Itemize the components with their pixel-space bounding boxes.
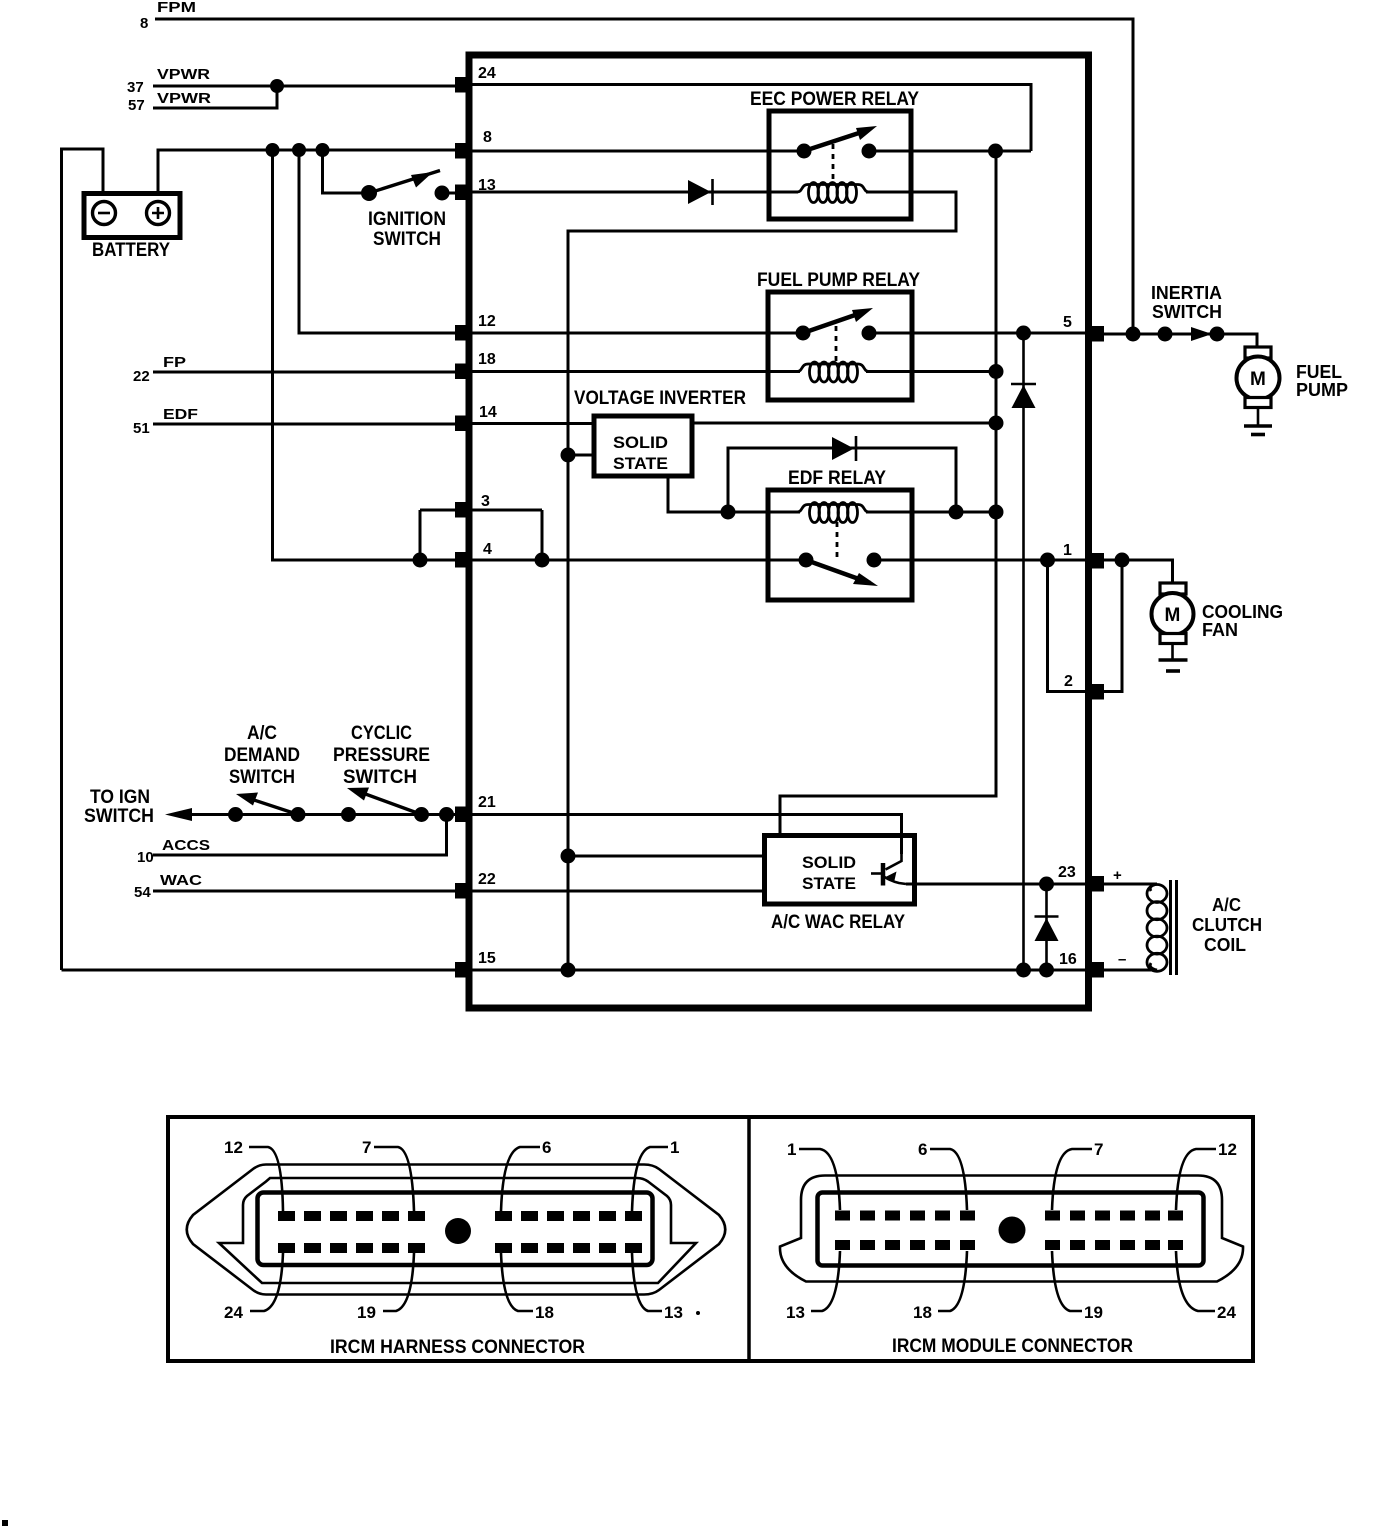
- wire VPWR pin 37: [127, 66, 458, 96]
- connector IRCM harness inner shell: [258, 1193, 653, 1266]
- svg-text:A/C: A/C: [247, 723, 277, 744]
- svg-text:13: 13: [664, 1303, 683, 1322]
- wire ACCS pin 10: [137, 815, 447, 867]
- svg-text:IRCM MODULE CONNECTOR: IRCM MODULE CONNECTOR: [892, 1336, 1133, 1357]
- wire EEC feed vertical to WAC: [780, 151, 996, 838]
- pin label 24 harness: [224, 1253, 283, 1322]
- svg-text:VPWR: VPWR: [157, 90, 211, 107]
- node EEC right feed junction: [988, 144, 1003, 159]
- svg-text:SWITCH: SWITCH: [1152, 302, 1222, 322]
- pin label 12 module: [1176, 1140, 1237, 1210]
- motor M2 cooling fan: [1152, 583, 1284, 644]
- svg-text:13: 13: [786, 1303, 805, 1322]
- scan artifact bottom-left: [2, 1520, 8, 1526]
- svg-text:SWITCH: SWITCH: [229, 767, 295, 788]
- wire B+ down to ignition switch: [323, 150, 370, 193]
- node strap left: [413, 553, 428, 568]
- svg-text:7: 7: [1094, 1140, 1103, 1159]
- wire battery positive feed line: [158, 150, 458, 196]
- pin 4: [455, 541, 492, 568]
- pin 18: [455, 351, 496, 379]
- svg-text:IGNITION: IGNITION: [368, 209, 446, 230]
- svg-text:PUMP: PUMP: [1296, 380, 1348, 400]
- motor M1 fuel pump: [1237, 347, 1349, 408]
- scan speck after 13 label: [696, 1311, 700, 1315]
- wire ground bus bottom to pin 15: [62, 969, 459, 972]
- wire pin 14 to voltage inverter: [471, 422, 596, 425]
- pin label 13 module: [786, 1251, 840, 1322]
- node ground stub to inverter: [561, 448, 576, 463]
- pin 12: [455, 313, 496, 341]
- wire TO IGN SWITCH line with arrow: [84, 787, 458, 827]
- svg-text:16: 16: [1059, 951, 1077, 968]
- wire pin 12 to FP relay contact: [471, 332, 803, 335]
- svg-text:SOLID: SOLID: [613, 433, 668, 452]
- connector harness pins top-left row: [278, 1211, 425, 1221]
- svg-text:18: 18: [913, 1303, 932, 1322]
- EEC power relay U1: [750, 89, 919, 219]
- pin 1: [1063, 542, 1104, 569]
- diode CR2 pin5 to ground line: [1011, 333, 1036, 970]
- svg-text:TO IGN: TO IGN: [90, 787, 150, 808]
- wire pin 4 line to EDF contact and pin 1: [458, 559, 1090, 562]
- pin 14: [455, 404, 497, 431]
- switch inertia switch: [1151, 283, 1225, 342]
- node VPWR junction: [270, 79, 284, 93]
- svg-text:VOLTAGE INVERTER: VOLTAGE INVERTER: [574, 388, 746, 409]
- pin label 19 harness: [357, 1253, 414, 1322]
- svg-text:SOLID: SOLID: [802, 853, 856, 872]
- svg-text:7: 7: [362, 1138, 371, 1157]
- svg-text:CYCLIC: CYCLIC: [351, 723, 412, 744]
- svg-text:22: 22: [133, 368, 150, 385]
- voltage inverter U3 solid state: [574, 388, 746, 476]
- wire ground to WAC box: [568, 855, 766, 858]
- wire B+ down to pin 12 line: [299, 150, 458, 333]
- svg-text:CLUTCH: CLUTCH: [1192, 915, 1262, 935]
- connector panel box: [168, 1117, 1253, 1361]
- svg-text:1: 1: [787, 1140, 796, 1159]
- pin label 18 harness: [501, 1253, 554, 1322]
- connector panel divider: [747, 1117, 751, 1361]
- svg-text:INERTIA: INERTIA: [1151, 283, 1222, 303]
- connector module pins top-left row: [835, 1211, 975, 1221]
- svg-text:5: 5: [1063, 314, 1072, 331]
- pin label 1 harness: [632, 1138, 679, 1211]
- pin 23: [1058, 864, 1104, 892]
- pin 2: [1064, 673, 1104, 700]
- pin label 6 module: [918, 1140, 967, 1210]
- svg-text:EEC POWER RELAY: EEC POWER RELAY: [750, 89, 919, 110]
- IRCM module outline: [469, 55, 1089, 1008]
- node diode tap on pin 5 line: [1016, 326, 1031, 341]
- svg-text:4: 4: [483, 541, 492, 558]
- wire pin 22 to WAC box: [471, 890, 766, 893]
- diode CR3 on EDF bypass: [832, 436, 856, 461]
- diode CR4 clutch clamp: [1035, 884, 1059, 970]
- svg-text:VPWR: VPWR: [157, 66, 210, 83]
- wire pin 1 to cooling fan: [1102, 560, 1173, 584]
- svg-text:23: 23: [1058, 864, 1076, 881]
- EDF relay U4: [768, 468, 912, 600]
- wire pin 18 FP coil line: [471, 370, 996, 373]
- svg-text:FP: FP: [163, 354, 186, 371]
- node strap right: [535, 553, 550, 568]
- inductor L1 A/C clutch coil: [1147, 880, 1262, 975]
- wire inverter output to right: [692, 422, 996, 425]
- svg-text:3: 3: [481, 493, 490, 510]
- svg-text:+: +: [1113, 867, 1122, 884]
- svg-text:SWITCH: SWITCH: [343, 767, 417, 788]
- svg-text:8: 8: [483, 129, 492, 146]
- svg-text:57: 57: [128, 97, 145, 114]
- svg-text:FAN: FAN: [1202, 620, 1238, 640]
- pin 22 inner: [455, 871, 496, 899]
- pin label 7 harness: [362, 1138, 414, 1211]
- svg-text:22: 22: [478, 871, 496, 888]
- svg-text:–: –: [1118, 951, 1126, 968]
- svg-text:12: 12: [1218, 1140, 1237, 1159]
- wire inverter bottom to EDF coil: [668, 476, 728, 512]
- pin 16: [1059, 951, 1104, 978]
- connector harness pins bottom-left row: [278, 1243, 425, 1253]
- wire cooling fan loop to pin 2: [1102, 560, 1122, 692]
- svg-text:PRESSURE: PRESSURE: [333, 745, 430, 766]
- wire pin 21 to WAC transistor: [471, 815, 902, 855]
- node EDF coil far right junction: [989, 505, 1004, 520]
- wire pin 23 to clutch coil: [1102, 883, 1157, 886]
- wire B+ down to pin 4 line: [273, 150, 459, 560]
- connector module pins bottom-left row: [835, 1240, 975, 1250]
- svg-text:DEMAND: DEMAND: [224, 745, 300, 766]
- svg-text:37: 37: [127, 79, 144, 96]
- pin 8: [455, 129, 492, 159]
- ground cooling fan: [1159, 643, 1188, 671]
- diode CR1 on pin 13 line: [688, 179, 713, 205]
- svg-text:STATE: STATE: [613, 454, 668, 473]
- node inverter output end: [989, 416, 1004, 431]
- wire pin 5 to inertia switch and fuel pump: [1102, 334, 1257, 349]
- pin label 1 module: [787, 1140, 840, 1210]
- wire VPWR pin 57: [128, 86, 277, 114]
- node B+ junction 3: [316, 143, 330, 157]
- wire FP pin 22: [133, 354, 458, 385]
- battery BAT1: [84, 194, 180, 262]
- connector module pins bottom-right row: [1045, 1240, 1183, 1250]
- svg-text:12: 12: [478, 313, 496, 330]
- svg-text:2: 2: [1064, 673, 1073, 690]
- svg-text:FPM: FPM: [157, 0, 196, 16]
- node EDF coil left junction: [721, 505, 736, 520]
- node module center post: [999, 1217, 1026, 1244]
- node harness center post: [445, 1218, 471, 1244]
- wire EDF pin 51: [133, 406, 458, 437]
- node B+ junction 2: [292, 143, 306, 157]
- wire WAC output pin 23: [906, 883, 1090, 886]
- node B+ junction 1: [266, 143, 280, 157]
- svg-text:24: 24: [1217, 1303, 1236, 1322]
- pin label 19 module: [1052, 1251, 1103, 1322]
- pin 24: [455, 65, 496, 93]
- svg-text:SWITCH: SWITCH: [373, 229, 441, 250]
- connector harness pins bottom-right row: [495, 1243, 642, 1253]
- svg-text:M: M: [1250, 369, 1266, 390]
- wire WAC pin 54: [134, 872, 458, 901]
- node EDF coil right junction: [949, 505, 964, 520]
- svg-text:FUEL: FUEL: [1296, 362, 1342, 382]
- wire pin 15/16 ground line: [458, 969, 1156, 972]
- wire EDF diode bypass: [728, 448, 956, 512]
- switch cyclic pressure switch: [333, 723, 430, 822]
- svg-text:15: 15: [478, 950, 496, 967]
- pin label 13 harness: [632, 1253, 683, 1322]
- node ground to WAC junction: [561, 849, 576, 864]
- pin 21: [455, 794, 496, 822]
- wire FPM net: pin 8 label line top: [140, 0, 1133, 334]
- svg-text:24: 24: [224, 1303, 243, 1322]
- svg-text:19: 19: [1084, 1303, 1103, 1322]
- connector IRCM module inner shell: [818, 1193, 1204, 1266]
- svg-text:M: M: [1165, 605, 1181, 626]
- node cooling fan tap: [1115, 553, 1130, 568]
- connector module pins top-right row: [1045, 1211, 1183, 1221]
- svg-text:8: 8: [140, 15, 148, 32]
- wire pin 2 inner loop: [1048, 560, 1091, 692]
- pin label 7 module: [1052, 1140, 1103, 1210]
- svg-text:21: 21: [478, 794, 496, 811]
- wire pin 8 contact line EEC relay: [471, 150, 1031, 153]
- svg-text:STATE: STATE: [802, 874, 856, 893]
- svg-text:WAC: WAC: [160, 872, 202, 889]
- svg-text:EDF: EDF: [163, 406, 198, 423]
- svg-text:ACCS: ACCS: [162, 837, 210, 854]
- svg-text:12: 12: [224, 1138, 243, 1157]
- svg-text:54: 54: [134, 884, 151, 901]
- svg-text:6: 6: [918, 1140, 927, 1159]
- svg-text:10: 10: [137, 849, 154, 866]
- svg-text:FUEL PUMP RELAY: FUEL PUMP RELAY: [757, 270, 920, 291]
- A/C WAC relay U5 solid state: [765, 836, 915, 934]
- svg-text:EDF RELAY: EDF RELAY: [788, 468, 886, 489]
- svg-text:6: 6: [542, 1138, 551, 1157]
- svg-text:1: 1: [1063, 542, 1072, 559]
- switch A/C demand switch: [224, 723, 306, 822]
- node WAC diode tap: [1039, 877, 1054, 892]
- connector harness pins top-right row: [495, 1211, 642, 1221]
- wire battery negative to ground bus left side: [62, 149, 104, 970]
- wire pin 3 strap: [420, 510, 542, 560]
- svg-text:1: 1: [670, 1138, 679, 1157]
- node ground line diode CR4: [1039, 963, 1054, 978]
- fuel pump relay U2: [757, 270, 920, 400]
- node pin1 inner junction: [1040, 553, 1055, 568]
- node ACCS junction on switch line: [439, 807, 454, 822]
- ground fuel pump: [1244, 407, 1272, 435]
- svg-text:IRCM HARNESS CONNECTOR: IRCM HARNESS CONNECTOR: [330, 1337, 585, 1358]
- connector IRCM harness connector outline: [187, 1165, 726, 1295]
- pin label 24 module: [1176, 1251, 1236, 1322]
- svg-text:A/C WAC RELAY: A/C WAC RELAY: [771, 912, 905, 933]
- pin 3: [455, 493, 490, 518]
- svg-text:A/C: A/C: [1212, 895, 1241, 915]
- pin label 6 harness: [501, 1138, 551, 1211]
- pin 15: [455, 950, 496, 978]
- pin 13: [455, 177, 496, 200]
- svg-text:14: 14: [479, 404, 497, 421]
- svg-text:COIL: COIL: [1204, 935, 1246, 955]
- switch ignition switch: [361, 171, 458, 251]
- svg-text:COOLING: COOLING: [1202, 602, 1283, 622]
- svg-text:19: 19: [357, 1303, 376, 1322]
- svg-text:51: 51: [133, 420, 150, 437]
- wire ground stub into inverter: [568, 454, 594, 457]
- wire EDF coil line: [668, 511, 996, 514]
- svg-text:18: 18: [535, 1303, 554, 1322]
- node FP coil right end: [989, 364, 1004, 379]
- svg-text:BATTERY: BATTERY: [92, 240, 170, 261]
- wire pin 24 to EEC contact feed: [471, 85, 1031, 152]
- node ground line diode CR2: [1016, 963, 1031, 978]
- wire pin 13 EEC coil line: [471, 192, 956, 970]
- node FPM junction: [1126, 327, 1141, 342]
- svg-text:24: 24: [478, 65, 496, 82]
- pin 5: [1063, 314, 1104, 342]
- connector IRCM module connector outline: [780, 1176, 1243, 1282]
- wire FP contact to pin 5: [869, 332, 1090, 335]
- node ground line x568: [561, 963, 576, 978]
- svg-text:18: 18: [478, 351, 496, 368]
- svg-text:SWITCH: SWITCH: [84, 806, 154, 827]
- pin label 12 harness: [224, 1138, 283, 1211]
- pin label 18 module: [913, 1251, 967, 1322]
